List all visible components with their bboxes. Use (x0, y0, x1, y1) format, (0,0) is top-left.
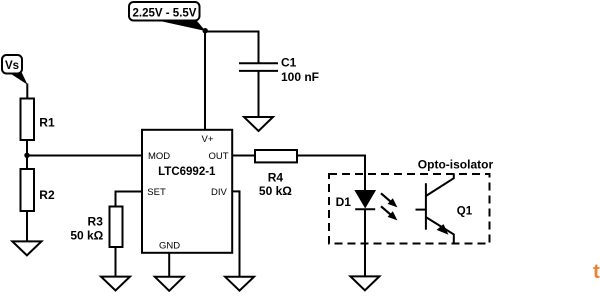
wire R4 to corner (297, 155, 365, 157)
wire Vs tail to R1 top (26, 84, 28, 99)
opto-isolator dashed box (329, 174, 490, 244)
svg-text:MOD: MOD (148, 151, 170, 162)
LED D1 (355, 191, 397, 221)
wire OUT pin to R4 (232, 155, 255, 157)
wire SET pin to R3 (116, 192, 142, 207)
wire supply node to C1 branch (205, 32, 259, 64)
svg-text:R3: R3 (88, 215, 104, 229)
transistor Q1 (416, 173, 454, 242)
net label Vs callout (2, 55, 28, 85)
wire junction to MOD pin (27, 155, 142, 157)
svg-text:50 kΩ: 50 kΩ (70, 229, 103, 243)
svg-text:Vs: Vs (5, 60, 19, 72)
ground (under DIV wire) (225, 277, 254, 291)
resistor R4 (255, 150, 297, 162)
wire D1 cathode to ground (364, 210, 366, 278)
svg-text:Q1: Q1 (457, 205, 473, 217)
net label 2.25V - 5.5V callout (129, 2, 206, 31)
svg-text:R4: R4 (268, 171, 284, 185)
wire R3 bottom to ground (115, 247, 117, 277)
wire R2 bottom to ground (26, 211, 28, 242)
svg-text:100 nF: 100 nF (281, 70, 319, 84)
D1 light arrow 2 (381, 206, 391, 215)
svg-text:DIV: DIV (211, 187, 228, 198)
svg-text:Opto-isolator: Opto-isolator (418, 157, 494, 171)
capacitor C1 (239, 62, 278, 64)
node supply junction (203, 28, 208, 33)
ground (under R2) (12, 241, 41, 255)
svg-text:SET: SET (147, 187, 166, 198)
ground (under R3) (101, 277, 130, 291)
resistor R3 (110, 207, 123, 248)
wire DIV pin to ground (232, 191, 240, 277)
svg-text:D1: D1 (336, 195, 352, 209)
svg-text:C1: C1 (281, 55, 297, 69)
resistor R1 (21, 99, 35, 141)
D1 light arrow 1 (381, 193, 391, 202)
svg-text:2.25V - 5.5V: 2.25V - 5.5V (133, 8, 197, 20)
svg-text:t: t (593, 260, 600, 283)
wire C1 bottom to ground (258, 71, 260, 118)
svg-text:GND: GND (159, 240, 180, 251)
ground (under GND pin) (155, 277, 184, 291)
IC U1 LTC6992-1 body (142, 130, 232, 253)
wire GND pin to ground (168, 253, 170, 278)
svg-text:50 kΩ: 50 kΩ (259, 184, 292, 198)
svg-text:R2: R2 (39, 188, 55, 202)
svg-text:R1: R1 (39, 116, 55, 130)
node R1/R2/MOD junction (24, 153, 29, 158)
wire R1 bottom to R2 top (26, 140, 28, 169)
svg-text:OUT: OUT (208, 151, 228, 162)
wire corner down to D1 anode (364, 155, 366, 192)
wire supply node down to V+ pin (204, 31, 206, 130)
svg-text:V+: V+ (202, 134, 214, 145)
svg-text:LTC6992-1: LTC6992-1 (158, 166, 216, 178)
resistor R2 (21, 169, 35, 211)
ground (under C1) (244, 117, 273, 131)
ground (under D1) (350, 276, 379, 290)
